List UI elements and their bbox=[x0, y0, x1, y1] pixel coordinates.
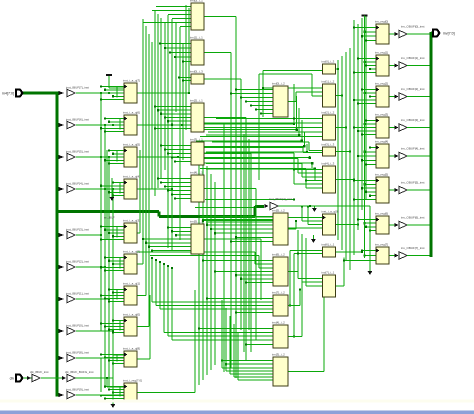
svg-text:inv[2]_i_2: inv[2]_i_2 bbox=[322, 110, 335, 114]
svg-text:inst_i_a_q[3]: inst_i_a_q[3] bbox=[123, 218, 140, 222]
svg-text:inv[6]_i_2: inv[6]_i_2 bbox=[272, 252, 285, 256]
svg-text:inst_i_a_q[2]: inst_i_a_q[2] bbox=[123, 249, 140, 253]
svg-text:inv_reg[7]: inv_reg[7] bbox=[375, 242, 388, 246]
svg-text:inv_reg[1]: inv_reg[1] bbox=[375, 50, 388, 54]
svg-text:inv[0]_i_1: inv[0]_i_1 bbox=[190, 0, 203, 2]
svg-text:inst_i_a_q[4]: inst_i_a_q[4] bbox=[123, 174, 140, 178]
svg-text:inv_reg[2]: inv_reg[2] bbox=[375, 81, 388, 85]
svg-text:inst_i_a_q[0]: inst_i_a_q[0] bbox=[123, 312, 140, 316]
svg-text:inv[4]_i_1: inv[4]_i_1 bbox=[190, 170, 203, 174]
svg-text:inst_IBUF[0]_inst: inst_IBUF[0]_inst bbox=[66, 323, 89, 327]
svg-text:inst_i_a_q[6]: inst_i_a_q[6] bbox=[123, 110, 140, 114]
svg-text:inv_OBUF[4]_inst: inv_OBUF[4]_inst bbox=[401, 147, 425, 151]
svg-text:clk_IBUF_inst: clk_IBUF_inst bbox=[30, 370, 49, 374]
svg-text:inst_IBUF[5]_inst: inst_IBUF[5]_inst bbox=[66, 149, 89, 153]
svg-text:inst_IBUF[4]_inst: inst_IBUF[4]_inst bbox=[269, 197, 292, 201]
svg-text:inv[7:0]: inv[7:0] bbox=[443, 31, 455, 35]
svg-text:inst_IBUF[3]_inst: inst_IBUF[3]_inst bbox=[66, 227, 89, 231]
svg-text:rst_IBUF: rst_IBUF bbox=[104, 216, 115, 220]
svg-text:inv[3]_i_1: inv[3]_i_1 bbox=[190, 137, 203, 141]
svg-text:inst_i_a_q[1]: inst_i_a_q[1] bbox=[123, 281, 140, 285]
svg-text:inst_IBUF[9]_inst: inst_IBUF[9]_inst bbox=[66, 387, 89, 391]
svg-text:inv_OBUF[6]_inst: inv_OBUF[6]_inst bbox=[401, 216, 425, 220]
svg-text:inst_i_reg[7:0]: inst_i_reg[7:0] bbox=[123, 378, 142, 382]
svg-text:inv[2]_i_1: inv[2]_i_1 bbox=[190, 98, 203, 102]
svg-text:inv[3]_i_3: inv[3]_i_3 bbox=[322, 142, 335, 146]
svg-text:inst_IBUF[2]_inst: inst_IBUF[2]_inst bbox=[66, 259, 89, 263]
svg-text:inv[4]_i_2: inv[4]_i_2 bbox=[272, 320, 285, 324]
svg-text:inv[5]_i_1: inv[5]_i_1 bbox=[190, 219, 203, 223]
svg-text:inv_OBUF[7]_inst: inv_OBUF[7]_inst bbox=[401, 246, 425, 250]
svg-text:inst_i_a_q[0]: inst_i_a_q[0] bbox=[322, 209, 339, 213]
svg-text:inv[4]_i_3: inv[4]_i_3 bbox=[322, 161, 335, 165]
svg-text:inst_i_a_q[8]: inst_i_a_q[8] bbox=[123, 346, 140, 350]
svg-text:inst_i_a_q[7]: inst_i_a_q[7] bbox=[123, 78, 140, 82]
svg-text:inv[0]_i_3: inv[0]_i_3 bbox=[190, 69, 203, 73]
svg-text:inst_IBUF[7]_inst: inst_IBUF[7]_inst bbox=[66, 85, 89, 89]
svg-text:inv_OBUF[5]_inst: inv_OBUF[5]_inst bbox=[401, 181, 425, 185]
svg-text:inv[5]_i_2: inv[5]_i_2 bbox=[272, 208, 285, 212]
svg-text:inst_IBUF[8]_inst: inst_IBUF[8]_inst bbox=[66, 350, 89, 354]
svg-text:inv[0]_i_2: inv[0]_i_2 bbox=[272, 81, 285, 85]
svg-text:inv[1]_i_2: inv[1]_i_2 bbox=[322, 79, 335, 83]
svg-text:inv_OBUF[0]_inst: inv_OBUF[0]_inst bbox=[401, 25, 425, 29]
svg-text:inst_IBUF[1]_inst: inst_IBUF[1]_inst bbox=[66, 291, 89, 295]
svg-text:inst_i_a_q[5]: inst_i_a_q[5] bbox=[123, 142, 140, 146]
svg-text:inst_IBUF[4]_inst: inst_IBUF[4]_inst bbox=[66, 181, 89, 185]
svg-text:inv_OBUF[2]_inst: inv_OBUF[2]_inst bbox=[401, 87, 425, 91]
svg-text:inv[3]_i_2: inv[3]_i_2 bbox=[272, 352, 285, 356]
svg-text:in4[7:0]: in4[7:0] bbox=[2, 91, 14, 95]
svg-text:inv_OBUF[3]_inst: inv_OBUF[3]_inst bbox=[401, 118, 425, 122]
svg-text:inv[7]_i_2: inv[7]_i_2 bbox=[272, 290, 285, 294]
svg-text:inv[6]_i_1: inv[6]_i_1 bbox=[322, 242, 335, 246]
svg-text:inv_reg[5]: inv_reg[5] bbox=[375, 172, 388, 176]
svg-text:inv_OBUF[1]_inst: inv_OBUF[1]_inst bbox=[401, 56, 425, 60]
svg-text:inv_reg[6]: inv_reg[6] bbox=[375, 211, 388, 215]
svg-text:clk: clk bbox=[10, 376, 15, 380]
svg-text:inv[1]_i_1: inv[1]_i_1 bbox=[190, 35, 203, 39]
svg-text:inv_reg[3]: inv_reg[3] bbox=[375, 112, 388, 116]
svg-text:inv[0]_i_3: inv[0]_i_3 bbox=[322, 59, 335, 63]
svg-text:inv[7]_i_1: inv[7]_i_1 bbox=[322, 270, 335, 274]
svg-text:clk_IBUF_BUFG_inst: clk_IBUF_BUFG_inst bbox=[65, 370, 94, 374]
svg-text:inv_reg[0]: inv_reg[0] bbox=[375, 19, 388, 23]
svg-text:inv_reg[4]: inv_reg[4] bbox=[375, 139, 388, 143]
svg-text:inst_IBUF[6]_inst: inst_IBUF[6]_inst bbox=[66, 117, 89, 121]
